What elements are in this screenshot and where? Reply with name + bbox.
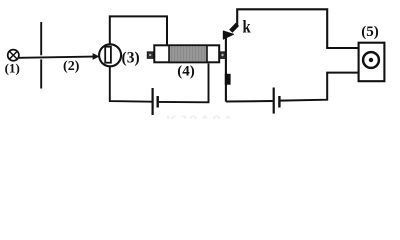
- svg-text:(2): (2): [63, 59, 80, 74]
- svg-text:(3): (3): [122, 50, 140, 67]
- svg-text:k: k: [243, 17, 251, 37]
- svg-text:(4): (4): [177, 64, 195, 80]
- svg-text:KJ8A8A: KJ8A8A: [166, 113, 236, 120]
- svg-text:(1): (1): [5, 61, 20, 76]
- svg-text:(5): (5): [361, 24, 379, 40]
